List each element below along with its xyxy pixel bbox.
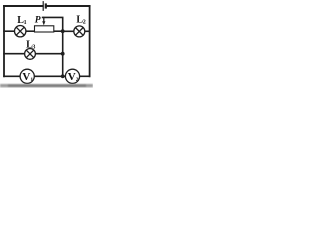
wire: lamp L3 to node B bbox=[35, 53, 62, 55]
wire: voltmeter V2 to right border bbox=[79, 75, 89, 77]
node B junction dot bbox=[61, 52, 65, 56]
lamp L3 bbox=[25, 49, 36, 60]
voltmeter V1 bbox=[20, 69, 34, 83]
node C junction dot bbox=[61, 74, 65, 78]
svg-text:2: 2 bbox=[76, 77, 79, 83]
wire: row D left border to voltmeter V1 bbox=[4, 75, 20, 77]
rheostat P resistor box bbox=[35, 26, 54, 32]
voltmeter V2 bbox=[65, 69, 79, 83]
lamp L1 bbox=[15, 26, 26, 37]
wire: row C left border to lamp L3 bbox=[4, 53, 25, 55]
svg-text:P: P bbox=[35, 16, 41, 26]
scan artifact: darker streak within band bbox=[8, 85, 86, 87]
node A junction dot bbox=[61, 29, 65, 33]
lamp L2 bbox=[74, 26, 85, 37]
wire: node A to lamp L2 bbox=[63, 30, 74, 32]
battery cell: short thick negative plate bbox=[45, 3, 47, 8]
wire: left border vertical bbox=[3, 6, 5, 76]
wire: row B left border to lamp L1 bbox=[4, 30, 15, 32]
svg-text:V: V bbox=[68, 71, 76, 83]
wire: voltmeter V1 to voltmeter V2 through node C bbox=[34, 75, 66, 77]
battery cell: long positive plate bbox=[42, 1, 44, 11]
wire: right border vertical bbox=[89, 6, 91, 76]
wire: lamp L2 to right border bbox=[85, 30, 90, 32]
wire: slider horizontal to vertical bus bbox=[43, 17, 63, 31]
wire: top-right segment from battery to corner bbox=[46, 5, 89, 7]
rheostat P slider arrow bbox=[42, 21, 45, 25]
svg-text:3: 3 bbox=[32, 45, 35, 51]
wire: slider arrow stub bbox=[43, 17, 45, 22]
wire: vertical bus node B to node C bbox=[62, 54, 64, 77]
scan artifact: bottom grey band bbox=[0, 84, 93, 87]
svg-text:1: 1 bbox=[24, 20, 27, 26]
wire: rheostat box to node A bbox=[54, 30, 63, 32]
svg-text:2: 2 bbox=[83, 20, 86, 26]
background bbox=[0, 0, 93, 88]
wire: lamp L1 to rheostat box bbox=[26, 30, 35, 32]
svg-text:V: V bbox=[22, 71, 30, 83]
wire: vertical bus node A to node B bbox=[62, 31, 64, 54]
wire: top-left segment from corner to battery bbox=[4, 5, 43, 7]
svg-text:1: 1 bbox=[30, 77, 33, 83]
